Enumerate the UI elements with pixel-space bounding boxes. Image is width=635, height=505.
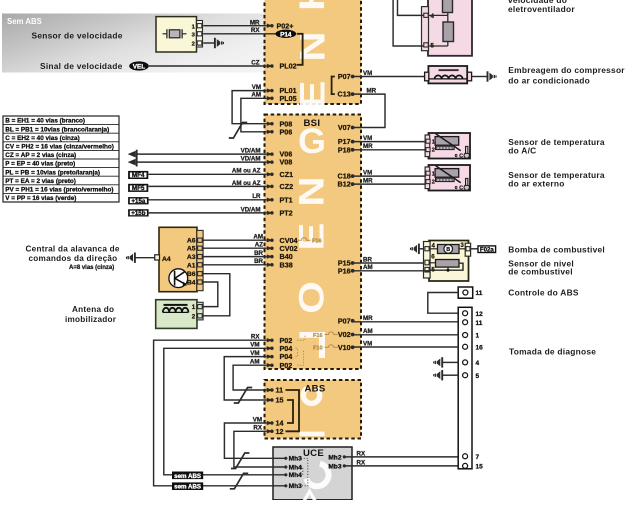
fan resistor unit connector strip <box>422 7 429 51</box>
wire AZ A5 to CV02 <box>203 247 267 249</box>
svg-text:2: 2 <box>192 42 195 48</box>
fan unit pin 4 <box>424 13 428 17</box>
svg-text:Sinal de velocidade: Sinal de velocidade <box>40 61 123 71</box>
wire VD/AM to V08 with arrow terminal <box>136 161 267 163</box>
svg-text:B: B <box>446 247 450 253</box>
speed sensor pin 3 <box>197 32 202 36</box>
svg-text:P06: P06 <box>280 127 293 136</box>
svg-text:MF4: MF4 <box>132 172 145 179</box>
svg-text:PT2: PT2 <box>280 209 293 218</box>
svg-text:CZ1: CZ1 <box>280 170 294 179</box>
svg-text:C: C <box>459 186 463 192</box>
pin V07 <box>351 126 355 130</box>
outside temp sensor box <box>429 165 471 191</box>
wire BR P15 to pump pin 6 <box>353 262 424 264</box>
svg-text:Mb3: Mb3 <box>328 463 342 470</box>
sem ABS tag upper <box>172 472 203 480</box>
pin B40 <box>267 254 273 258</box>
clutch left tab <box>425 72 429 81</box>
switch symbol circle <box>169 269 188 288</box>
svg-text:Bomba de combustivel: Bomba de combustivel <box>508 245 605 255</box>
wire RX P02 to UCE Mh3 via sem ABS <box>154 340 285 486</box>
cable slash on UCE Mh wires <box>231 453 249 469</box>
svg-text:MR: MR <box>250 19 260 26</box>
wire LR +15a to PT1 <box>149 199 267 201</box>
svg-text:2: 2 <box>432 180 435 186</box>
wire VM P17 to AC sensor pin1 <box>353 141 426 143</box>
svg-text:imobilizador: imobilizador <box>65 315 117 324</box>
svg-text:VD/AM: VD/AM <box>241 206 261 213</box>
svg-text:VM: VM <box>253 416 262 423</box>
cable slash on sem ABS wires <box>230 473 248 489</box>
wire VD/AM to V06 with arrow terminal <box>136 153 267 155</box>
fuel pump pin 3 <box>465 243 470 256</box>
wire AM V02 to diagnose 1 <box>353 334 459 336</box>
svg-text:sem ABS: sem ABS <box>174 473 201 480</box>
fan resistor unit box <box>428 0 472 56</box>
UCE pin Mh4 third <box>284 473 287 476</box>
pin PT2 <box>267 211 273 215</box>
clutch right tab <box>467 72 471 81</box>
pin P02+ <box>267 24 273 28</box>
fuel level wiper <box>429 263 463 270</box>
svg-text:15: 15 <box>476 464 484 471</box>
wire RX Mh2 to diagnose 7 <box>344 456 458 458</box>
svg-text:VM: VM <box>363 170 372 177</box>
svg-text:V07: V07 <box>338 123 351 132</box>
diagnose pin 11 <box>463 320 468 325</box>
svg-text:B38: B38 <box>280 260 293 269</box>
svg-text:Sem ABS: Sem ABS <box>7 17 42 26</box>
BSI module box <box>265 115 362 370</box>
pin P14 ellipse <box>275 30 296 38</box>
svg-text:BL = PB1 = 10vias (branco/lara: BL = PB1 = 10vias (branco/laranja) <box>5 126 109 133</box>
svg-text:Mh4: Mh4 <box>289 472 303 479</box>
svg-text:do ar externo: do ar externo <box>508 179 564 189</box>
wire RX ABS 12 to UCE Mh4 <box>234 431 285 467</box>
svg-text:Mh2: Mh2 <box>328 454 342 461</box>
wire VM ABS 14 to UCE Mh3 <box>224 423 284 458</box>
svg-text:CZ2: CZ2 <box>280 182 294 191</box>
compressor clutch coil box <box>428 66 467 83</box>
pin P17 <box>351 140 355 144</box>
svg-text:A=8 vias (cinza): A=8 vias (cinza) <box>69 265 114 271</box>
svg-text:11: 11 <box>476 290 483 297</box>
svg-text:PL = PB = 10vias (preto/laranj: PL = PB = 10vias (preto/laranja) <box>5 169 100 176</box>
fuel pump pin 4 <box>425 247 429 251</box>
internal fuse mark at CV04 <box>298 238 311 241</box>
svg-text:2: 2 <box>192 313 196 320</box>
svg-text:12: 12 <box>476 311 484 318</box>
fuse link F02a box <box>471 248 478 250</box>
pin V10 <box>351 345 355 349</box>
wire RX Mb3 to diagnose 15 <box>344 465 458 467</box>
wire MR C13 to V07 loop <box>353 94 385 127</box>
svg-text:P18: P18 <box>338 145 351 154</box>
svg-text:VM: VM <box>363 340 372 347</box>
svg-text:5: 5 <box>476 373 480 380</box>
svg-text:P02+: P02+ <box>277 21 294 30</box>
wire to fan unit pin 5 <box>393 0 424 46</box>
wire VM P04 to ABS 15 <box>224 357 267 400</box>
svg-text:V = PP = 16 vias (verde): V = PP = 16 vias (verde) <box>5 195 76 202</box>
resistor R2 <box>443 22 454 42</box>
svg-text:MR: MR <box>363 315 373 322</box>
svg-text:PL05: PL05 <box>280 94 297 103</box>
svg-text:P = EP = 40 vias (preto): P = EP = 40 vias (preto) <box>5 161 75 168</box>
antenna coil symbol <box>163 308 169 313</box>
diagnose pin 7 <box>463 454 468 459</box>
UCE pin Mh4 second <box>284 465 287 468</box>
fuel level sensor element <box>436 260 460 268</box>
ground at speed sensor <box>214 38 216 48</box>
diagnose pin 12 <box>463 311 468 316</box>
svg-text:AM ou AZ: AM ou AZ <box>232 168 261 175</box>
diagnose pin 15 <box>463 463 468 468</box>
svg-text:BR: BR <box>254 258 263 265</box>
ABS bracket 11 to 12 <box>286 390 300 431</box>
svg-text:PT1: PT1 <box>280 195 293 204</box>
pin B12 <box>351 182 355 186</box>
svg-text:Tomada de diagnose: Tomada de diagnose <box>509 347 596 357</box>
pin P04 lower <box>267 354 273 358</box>
svg-text:Mh3: Mh3 <box>289 456 303 463</box>
svg-text:MR: MR <box>367 87 377 94</box>
fuel pump pin 5 <box>425 267 429 272</box>
svg-text:1: 1 <box>476 333 480 340</box>
svg-text:P14: P14 <box>280 31 292 38</box>
pin A1 <box>198 263 203 267</box>
svg-text:PV = PH1 = 16 vias (preto/verm: PV = PH1 = 16 vias (preto/vermelho) <box>5 187 113 194</box>
internal dotted link P02 to V10 fuse <box>297 351 304 366</box>
svg-text:AM: AM <box>363 328 373 335</box>
ABS pin 12 <box>267 429 273 433</box>
svg-text:P07: P07 <box>338 72 351 81</box>
svg-text:PL02: PL02 <box>280 62 297 71</box>
svg-text:Embreagem do compressor: Embreagem do compressor <box>508 65 625 75</box>
diagnose pin 16 <box>463 344 468 349</box>
+15b supply box <box>128 209 149 216</box>
svg-text:E: E <box>293 81 332 109</box>
speed sensor box <box>156 17 197 52</box>
svg-text:RX: RX <box>357 459 366 466</box>
ABS bracket 15 to 14 <box>287 400 293 423</box>
fuel pump connector strip left <box>424 242 431 279</box>
svg-text:AZ: AZ <box>255 242 263 249</box>
svg-text:VM: VM <box>252 84 261 91</box>
cable slash on ABS 11/15 wires <box>234 388 252 404</box>
svg-text:AM: AM <box>250 359 260 366</box>
resistor R1 <box>443 0 453 13</box>
svg-text:F10: F10 <box>313 346 323 352</box>
pin P02 lower <box>267 363 273 367</box>
svg-text:RX: RX <box>251 334 260 341</box>
immobiliser antenna box <box>156 300 197 329</box>
svg-text:AM: AM <box>251 92 261 99</box>
svg-text:F16: F16 <box>312 238 322 244</box>
svg-text:V02: V02 <box>338 330 351 339</box>
wire diagnose 5 to ground <box>443 374 459 376</box>
wire CZ VEL to PL02 <box>149 65 267 67</box>
pin PT1 <box>267 198 273 202</box>
ABS pin 11 <box>267 388 273 392</box>
svg-text:do ar condicionado: do ar condicionado <box>508 76 590 86</box>
pin V08 <box>267 160 273 164</box>
svg-text:V10: V10 <box>338 343 351 352</box>
svg-text:VM: VM <box>363 135 372 142</box>
svg-text:4: 4 <box>431 13 435 20</box>
svg-text:comandos da direção: comandos da direção <box>29 254 118 263</box>
internal dotted link P02 to V02 fuse <box>297 336 305 340</box>
svg-text:do A/C: do A/C <box>508 146 536 156</box>
svg-text:A6: A6 <box>187 238 196 245</box>
wire AM PL05 to P06 <box>241 98 267 132</box>
svg-text:4: 4 <box>476 360 480 367</box>
svg-text:11: 11 <box>476 320 483 327</box>
UCE internal dotted link Mh4-Mh4 <box>301 467 303 475</box>
svg-text:6: 6 <box>431 254 435 261</box>
wire to fan unit pin 4 <box>398 0 424 15</box>
wire AM A6 to CV04 <box>203 239 267 241</box>
pin C18 <box>351 174 355 178</box>
pin P07 top <box>351 75 355 79</box>
pin P08 <box>267 122 273 126</box>
UCE pin Mh3 first <box>284 457 287 460</box>
UCE internal dotted link Mh3-Mh3 <box>301 458 308 486</box>
wire VM P04 to UCE Mh4 via sem ABS <box>164 348 285 475</box>
svg-text:UCE: UCE <box>303 448 324 459</box>
pin CV04 <box>267 238 273 242</box>
speed sensor crystal symbol <box>163 33 168 35</box>
ground at fuel pump <box>419 248 423 250</box>
svg-text:P02: P02 <box>280 361 293 370</box>
svg-text:C13: C13 <box>338 90 351 99</box>
fuse MF5 box <box>128 184 148 192</box>
svg-text:CZ: CZ <box>251 59 259 66</box>
pin V02 <box>351 333 355 337</box>
+15a supply box <box>128 197 149 204</box>
svg-text:BR: BR <box>254 250 263 257</box>
svg-text:A5: A5 <box>187 246 196 253</box>
svg-text:C = EH2 = 40 vias (cinza): C = EH2 = 40 vias (cinza) <box>5 135 79 142</box>
svg-text:VEL: VEL <box>133 64 146 71</box>
svg-text:Mh3: Mh3 <box>289 483 303 490</box>
svg-text:VM: VM <box>250 342 259 349</box>
pin A6 <box>198 238 203 242</box>
pin P15 <box>351 261 355 265</box>
svg-text:P07: P07 <box>338 316 351 325</box>
svg-text:+15a: +15a <box>131 198 145 205</box>
wire VM P07 to clutch <box>353 76 425 78</box>
UCE pin Mh3 fourth <box>284 484 287 487</box>
svg-text:AM: AM <box>253 234 263 241</box>
sem ABS tag lower <box>172 482 203 490</box>
svg-text:B4: B4 <box>187 280 196 287</box>
pin B6 <box>198 272 203 276</box>
wire VM V10 to diagnose 16 <box>353 346 459 348</box>
wire AM P02 to ABS 11 <box>233 365 267 390</box>
wire VM PL01 to P08 <box>232 91 267 124</box>
wire diagnose 4 to ground <box>443 361 459 363</box>
svg-text:VM: VM <box>363 70 372 77</box>
svg-text:BSI: BSI <box>304 118 321 129</box>
svg-text:AM ou AZ: AM ou AZ <box>232 180 261 187</box>
speed sensor pin strip <box>197 21 203 48</box>
pin P07 lower <box>351 319 355 323</box>
svg-text:0: 0 <box>455 185 458 191</box>
pin B38 <box>267 263 273 267</box>
connector strip A/B <box>197 230 203 290</box>
cable slash mark on P08/P06 wires <box>229 123 247 139</box>
pin CZ2 <box>267 184 273 188</box>
pin PL02 <box>267 64 273 68</box>
wire B4 to antenna pin 1 <box>203 282 218 307</box>
speed sensor pin 2 <box>197 41 202 45</box>
svg-text:VD/AM: VD/AM <box>241 148 261 155</box>
pin P06 <box>267 130 273 134</box>
svg-text:CV = PH2 = 16 vias (cinza/verm: CV = PH2 = 16 vias (cinza/vermelho) <box>5 144 114 151</box>
svg-text:PT = EA = 2 vias (preto): PT = EA = 2 vias (preto) <box>5 178 76 185</box>
svg-text:1: 1 <box>432 171 435 177</box>
speed sensor pin 1 <box>197 24 202 28</box>
svg-text:V08: V08 <box>280 158 293 167</box>
diagnostic socket box <box>458 307 472 469</box>
wire BR A1 to B38 <box>203 264 267 266</box>
wire RX sensor pin3 to P14 <box>203 33 275 35</box>
pin A5 <box>198 246 203 250</box>
svg-text:A3: A3 <box>187 254 196 261</box>
ECU top box (cut at top) <box>265 0 362 104</box>
legend connector table <box>3 116 119 202</box>
fuse MF4 box <box>128 171 148 179</box>
svg-text:RX: RX <box>251 27 260 34</box>
A/C temperature sensor box <box>429 133 471 159</box>
svg-text:N: N <box>292 176 331 206</box>
svg-text:de combustivel: de combustivel <box>508 266 572 276</box>
pin CZ1 <box>267 172 273 176</box>
wire AM ou AZ MF4 to CZ1 <box>148 173 266 175</box>
svg-text:1: 1 <box>192 304 196 311</box>
wire MR sensor pin1 to P02+ <box>203 25 267 27</box>
diagnose pin 1 <box>463 333 468 338</box>
svg-text:F16: F16 <box>313 333 323 339</box>
svg-text:MF5: MF5 <box>132 185 145 192</box>
wire sensor pin2 to ground <box>203 42 214 44</box>
svg-text:E: E <box>292 223 331 251</box>
pin P02 upper <box>267 338 273 342</box>
wire AM P16 to pump pin 5 <box>353 270 430 272</box>
svg-text:7: 7 <box>476 454 480 461</box>
pin P04 upper <box>267 346 273 350</box>
svg-text:LR: LR <box>252 193 261 200</box>
antenna pin strip <box>197 302 203 320</box>
pin A3 <box>198 255 203 259</box>
bracket P14 to PL02 <box>297 34 303 65</box>
svg-text:BR: BR <box>363 256 372 263</box>
wire VM C18 to ext sensor pin1 <box>353 175 426 177</box>
pin A4 with ground <box>155 255 160 260</box>
pin B4 <box>198 280 203 284</box>
svg-text:15: 15 <box>276 396 284 405</box>
svg-text:RX: RX <box>253 425 262 432</box>
pin PL01 <box>267 88 273 92</box>
svg-text:N: N <box>293 31 332 61</box>
svg-text:+15b: +15b <box>131 210 145 217</box>
svg-text:C: C <box>459 154 463 160</box>
svg-text:Controle do ABS: Controle do ABS <box>508 287 579 297</box>
svg-text:VD/AM: VD/AM <box>241 156 261 163</box>
diagnose pin 4 <box>463 360 468 365</box>
antenna pin 1 <box>198 305 203 309</box>
svg-text:3: 3 <box>460 242 464 249</box>
svg-text:AM: AM <box>363 264 373 271</box>
svg-text:MR: MR <box>363 143 373 150</box>
clutch coil symbol <box>435 75 442 79</box>
svg-text:1: 1 <box>432 139 435 145</box>
bracket P07 to C13 <box>332 77 335 95</box>
svg-text:H: H <box>293 0 332 11</box>
svg-text:MR: MR <box>363 178 373 185</box>
svg-text:CZ = AP = 2 vias (cinza): CZ = AP = 2 vias (cinza) <box>5 152 76 159</box>
fuel pump pin 6 <box>425 260 429 265</box>
wire AM ou AZ MF5 to CZ2 <box>148 185 266 187</box>
ABS pin 14 <box>267 421 273 425</box>
svg-text:Sensor de velocidade: Sensor de velocidade <box>32 31 123 41</box>
svg-text:16: 16 <box>476 344 484 351</box>
svg-text:A4: A4 <box>162 256 171 263</box>
svg-text:12: 12 <box>276 427 284 436</box>
UCE module box <box>273 447 352 500</box>
svg-text:A1: A1 <box>187 262 196 269</box>
wire B6 to antenna pin 2 <box>203 274 230 316</box>
svg-text:Central da alavanca de: Central da alavanca de <box>26 244 120 253</box>
ABS module box <box>265 380 362 439</box>
wire MR B12 to ext sensor pin2 <box>353 183 426 185</box>
svg-text:VM: VM <box>250 350 259 357</box>
svg-text:B = EH1 = 40 vias (branco): B = EH1 = 40 vias (branco) <box>5 118 85 125</box>
steering column switch box A <box>159 227 197 291</box>
ground at clutch <box>487 71 489 81</box>
svg-text:11: 11 <box>276 386 284 395</box>
svg-text:0: 0 <box>455 153 458 159</box>
pin C13 <box>351 92 355 96</box>
antenna pin 2 <box>198 314 203 318</box>
svg-text:B6: B6 <box>187 271 196 278</box>
pin PL05 <box>267 96 273 100</box>
wire MR P07 to diagnose 11 <box>353 321 459 323</box>
svg-text:F02a: F02a <box>480 246 495 253</box>
svg-text:RX: RX <box>357 450 366 457</box>
pin P16 <box>351 269 355 273</box>
wire VD/AM +15b to PT2 <box>149 212 267 214</box>
svg-text:2: 2 <box>432 148 435 154</box>
wire MR P18 to AC sensor pin2 <box>353 149 426 151</box>
ABS control connector box <box>458 287 473 298</box>
svg-text:B12: B12 <box>338 180 351 189</box>
internal dotted link P04 to P04 <box>296 348 298 356</box>
pin V06 <box>267 152 273 156</box>
wire BR A3 to B40 <box>203 256 267 258</box>
svg-text:Antena do: Antena do <box>72 305 114 314</box>
fan unit pin 5 <box>424 43 428 47</box>
ABS pin 15 <box>267 398 273 402</box>
VEL signal ellipse <box>129 61 149 70</box>
svg-text:ABS: ABS <box>305 384 326 395</box>
pin P18 <box>351 148 355 152</box>
fuel pump box <box>429 241 469 282</box>
svg-text:O: O <box>292 281 331 314</box>
wire clutch to ground <box>472 76 488 78</box>
